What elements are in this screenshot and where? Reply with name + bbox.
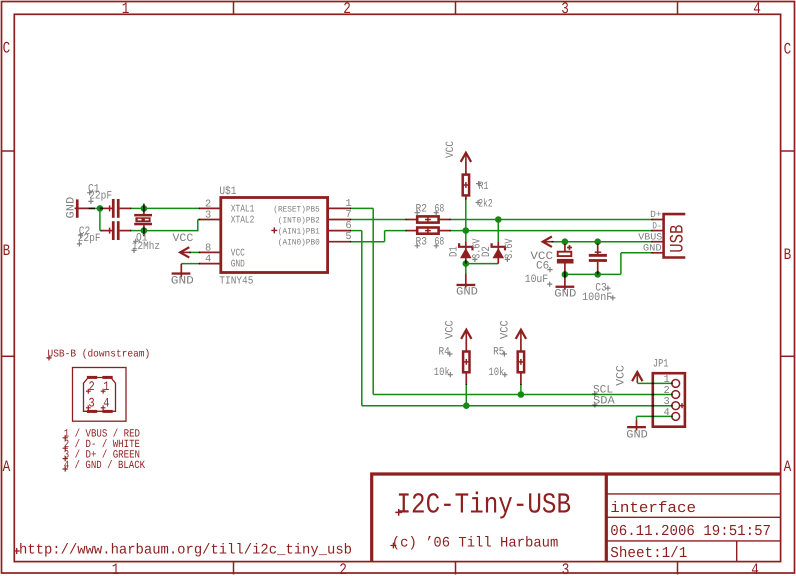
U$1 pin 6 (AIN1)PB1 [328,230,351,232]
USB-B pad top-right [102,376,112,379]
svg-text:3.6V: 3.6V [504,238,516,259]
wire XTAL2 horizontal stub [198,219,200,221]
ground at pin 4 [180,264,182,277]
svg-text:GND: GND [626,429,648,441]
svg-text:3: 3 [562,561,570,576]
wire cap bottom rail [565,273,621,275]
svg-text:10k: 10k [488,366,504,379]
wire D1 junction to GND [465,264,467,274]
ground below C6 [564,274,566,289]
svg-text:1: 1 [122,0,130,18]
svg-text:8: 8 [205,242,211,254]
wire pin 5 to R3 bend [350,241,385,243]
svg-text:22pF: 22pF [78,233,101,245]
USB pin VBUS [651,241,663,243]
frame column tick bottom 2|3 [455,562,457,575]
svg-text:VCC: VCC [445,320,457,339]
wire R2 to USB D+ [450,219,653,221]
wire D+ junction down to D2 [497,220,499,242]
junction D- at R1 [463,227,470,234]
U$1 pin 5 (AIN0)PB0 [328,241,351,243]
svg-text:C: C [3,39,11,57]
JP1 pin 1 [672,380,680,388]
title block border [370,472,780,561]
U$1 pin 2 XTAL1 [199,207,221,209]
USB-B pad bottom-right [102,410,112,413]
svg-text:VCC: VCC [499,320,511,339]
diode D2 zener [497,242,499,264]
wire R1 down to D- row [465,199,467,231]
junction VBUS at C6 [562,238,569,245]
svg-text:(AIN0)PB0: (AIN0)PB0 [278,239,320,248]
wire JP1 pin 4 to GND [637,415,673,417]
svg-text:3: 3 [561,0,569,18]
svg-text:VCC: VCC [231,249,245,260]
wire junction down to C2 row [99,208,101,231]
svg-text:XTAL2: XTAL2 [231,216,255,227]
svg-text:R1: R1 [479,181,489,193]
svg-text:06.11.2006 19:51:57: 06.11.2006 19:51:57 [610,522,771,540]
wire VCC to pin 8 [189,251,200,253]
frame row tick left C|B [2,150,15,152]
connector USB [664,214,686,257]
wire C2 row corner [100,230,102,232]
svg-text:GND: GND [456,286,478,298]
power VCC above R1 [461,153,471,162]
svg-text:A: A [3,458,11,476]
svg-text:TINY45: TINY45 [219,275,253,287]
svg-text:3: 3 [205,209,211,221]
svg-text:R5: R5 [493,347,504,359]
wire GND to C1 junction [89,207,100,209]
svg-text:C6: C6 [536,260,549,272]
svg-text:U$1: U$1 [219,185,236,198]
svg-text:interface: interface [610,499,696,517]
USB pin D- [651,230,663,232]
U$1 pin 4 GND [199,263,221,265]
USB-B pad top-left [87,376,97,379]
resistor R1 [465,163,467,176]
JP1 pin 3 [672,402,680,410]
wire R4 to SDA junction [465,384,467,406]
title block row line 2 [606,516,780,518]
junction rail at C6 bottom [562,271,569,278]
power VCC above R5 [516,330,526,339]
wire pin 1 to SCL vertical [350,207,373,209]
svg-text:C: C [784,40,792,58]
svg-text:GND: GND [66,196,78,218]
power VCC above R4 [461,330,471,339]
svg-text:XTAL1: XTAL1 [231,204,255,215]
svg-text:GND: GND [643,243,662,254]
USB-B inner shape [84,378,116,412]
ground left of C1 [76,199,79,217]
svg-text:GND: GND [231,260,245,271]
U$1 origin cross [271,227,277,233]
diode D1 zener [465,242,467,264]
frame column tick top 2|3 [455,2,457,15]
USB-B pad bottom-left [87,410,97,413]
USB pin D+ [651,219,663,221]
svg-text:VCC: VCC [173,233,194,245]
svg-text:2: 2 [339,561,347,576]
resistor R4 [465,340,467,352]
frame row tick right B|A [781,355,795,357]
svg-text:4: 4 [205,254,211,266]
junction C1 GND node [97,205,104,212]
U$1 pin 7 (INT0)PB2 [328,219,351,221]
svg-text:(c) ’06 Till Harbaum: (c) ’06 Till Harbaum [392,536,559,552]
svg-text:USB-B (downstream): USB-B (downstream) [48,349,151,361]
svg-text:JP1: JP1 [653,359,669,371]
junction SDA at R4 [463,402,470,409]
wire SCL row [373,394,673,396]
power VCC at JP1 [632,372,642,381]
power VCC at pin 8 [180,247,189,257]
wire crystal top to XTAL1 pin [144,207,200,209]
connector JP1 body [653,373,685,427]
title block row line 3 [606,540,780,542]
svg-text:D2: D2 [481,246,493,257]
frame row tick right C|B [781,150,795,152]
svg-text:(INT0)PB2: (INT0)PB2 [278,217,320,226]
title block sheet divider [736,541,738,562]
svg-text:2k2: 2k2 [478,197,493,210]
junction rail at C3 bottom [594,271,601,278]
U$1 pin 8 VCC [199,251,221,253]
svg-text:B: B [784,246,792,264]
junction crystal top [141,205,148,212]
svg-text:USB: USB [666,225,688,253]
resistor R5 [520,340,522,352]
crystal Q1 [143,204,145,215]
USB pin GND [651,252,663,254]
svg-text:2: 2 [343,0,351,18]
frame column tick bottom 3|4 [677,562,679,575]
svg-text:4: 4 [663,407,669,419]
svg-text:(AIN1)PB1: (AIN1)PB1 [278,228,320,237]
svg-text:(RESET)PB5: (RESET)PB5 [273,205,320,214]
capacitor C6 polarized [564,244,566,252]
svg-text:D1: D1 [448,246,460,257]
svg-text:B: B [3,242,11,260]
JP1 pin 2 [672,391,680,399]
svg-text:A: A [784,458,792,476]
svg-text:10uF: 10uF [525,274,549,286]
frame column tick top 1|2 [233,2,235,15]
svg-text:22pF: 22pF [89,190,112,202]
frame row tick left B|A [2,355,15,357]
svg-text:12Mhz: 12Mhz [132,240,160,253]
svg-text:I2C-Tiny-USB: I2C-Tiny-USB [397,488,572,521]
capacitor C1 [112,199,115,218]
op-amp U$1 TINY45 body [221,198,328,273]
wire XTAL2 vertical bend [197,220,199,232]
ground at JP1 [636,420,638,430]
junction SCL at R5 [518,391,525,398]
power VCC at VBUS [543,237,552,247]
wire R5 to SCL junction [520,384,522,395]
svg-text:GND: GND [554,289,576,301]
U$1 pin 3 XTAL2 [199,219,221,221]
svg-text:VCC: VCC [616,365,628,386]
wire D- junction down to D1 [465,231,467,242]
svg-text:R4: R4 [439,347,451,359]
junction D+ at D2 [495,216,502,223]
frame column tick top 3|4 [677,2,679,15]
frame column tick bottom 1|2 [233,562,235,575]
wire VCC arrow to VBUS rail [552,241,653,243]
svg-text:D+: D+ [650,209,662,220]
svg-text:10k: 10k [434,366,450,379]
JP1 origin cross [679,403,684,408]
svg-text:D-: D- [652,220,662,231]
wire R3 to USB D- [450,230,653,232]
title block row line 1 [606,493,780,495]
wire C2 to crystal bottom [130,230,144,232]
svg-text:4: 4 [753,0,761,18]
capacitor C2 [112,221,115,240]
svg-text:100nF: 100nF [582,292,612,304]
wire pin 6 to SDA vertical [350,230,362,232]
svg-text:VCC: VCC [445,141,457,158]
U$1 pin 1 (RESET)PB5 [328,207,351,209]
svg-text:GND: GND [171,275,194,287]
svg-text:1: 1 [112,561,120,576]
connector USB-B downstream outline [73,368,127,422]
wire crystal bottom to XTAL2 bend [144,230,198,232]
wire rail up to GND row [620,253,622,275]
ground below D1 [465,274,467,288]
junction crystal bottom [141,227,148,234]
svg-text:http://www.harbaum.org/till/i2: http://www.harbaum.org/till/i2c_tiny_usb [19,542,352,558]
resistor R3 [406,230,418,232]
junction VBUS at C3 [594,238,601,245]
wire SDA row [362,405,673,407]
svg-text:4 / GND / BLACK: 4 / GND / BLACK [64,460,146,472]
JP1 pin 4 [672,413,680,421]
svg-text:VBUS: VBUS [638,231,662,242]
junction diode ground node [463,260,470,267]
svg-text:Sheet:1/1: Sheet:1/1 [610,544,687,562]
wire pin 7 to R2 [350,219,407,221]
resistor R2 [406,219,418,221]
wire D2 bottom to D1 bottom [466,263,499,265]
wire C1 to crystal top [130,207,144,209]
svg-text:4: 4 [751,561,759,576]
wire pin 4 to GND bend [181,263,200,265]
capacitor C3 [597,244,599,255]
wire VCC to JP1 pin 1 [637,382,673,384]
